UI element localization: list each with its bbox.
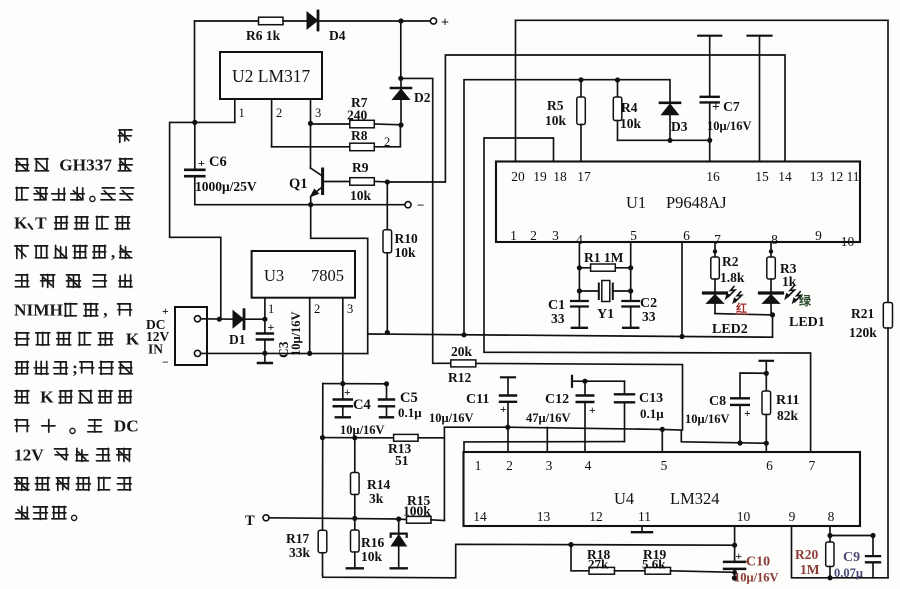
pin 11 of U4 label [638,509,651,524]
svg-text:3: 3 [546,458,553,473]
svg-text:U1: U1 [626,193,646,212]
svg-text:D1: D1 [229,332,246,347]
node [320,435,325,440]
svg-text:9: 9 [789,509,796,524]
svg-text:33: 33 [642,309,656,324]
svg-text:−: − [162,357,169,369]
wire [374,123,401,126]
svg-text:27k: 27k [588,557,609,572]
pin 6 wire of U1 [681,242,683,337]
wire [319,20,402,22]
wire [245,318,265,320]
pin 2 of U4 label [506,458,513,473]
capacitor C3 [257,319,275,353]
wire [830,535,873,537]
resistor R7 [347,95,374,128]
pin 7 of U1 label [714,232,721,247]
pin 6 of U4 label [766,458,773,473]
svg-text:3: 3 [315,106,321,120]
node [352,435,357,440]
wire [671,571,735,573]
wire top output rail [195,20,259,22]
pin 11 of U1 label [847,169,860,184]
node [505,425,510,430]
svg-text:2: 2 [530,228,537,243]
diode D1 [229,310,246,347]
svg-text:T: T [35,214,47,233]
svg-text:6: 6 [766,458,773,473]
wire pin10 of U4 [734,526,736,545]
note text (Chinese paragraph) [14,130,140,521]
capacitor C13 [615,381,664,441]
node [340,381,345,386]
svg-text:R11: R11 [776,393,799,408]
wire [515,20,517,161]
svg-text:13: 13 [537,509,551,524]
svg-text:10k: 10k [545,113,567,128]
svg-text:16: 16 [706,169,720,184]
svg-text:GH337: GH337 [59,156,112,175]
LED LED2 [704,279,773,337]
svg-text:17: 17 [577,169,591,184]
wire [401,20,430,22]
svg-text:K: K [126,330,140,349]
node [732,543,737,548]
svg-text:240: 240 [347,108,368,123]
pin 5 of U4 label [661,458,668,473]
svg-text:R21: R21 [851,306,874,321]
crystal Y1 [579,281,630,323]
chip U3 7805 [252,251,355,298]
svg-text:6: 6 [683,228,690,243]
svg-text:U4: U4 [614,489,634,508]
node [764,441,769,446]
svg-text:U3: U3 [264,266,284,285]
pin 17 of U1 label [577,169,591,184]
wire comparator rail [444,427,766,443]
svg-text:LM324: LM324 [670,489,720,508]
node [667,138,672,143]
svg-text:绿: 绿 [799,293,812,308]
svg-text:12: 12 [589,509,603,524]
wire R13 rail [323,437,394,439]
wire T rail [269,518,399,519]
svg-text:红: 红 [736,301,747,315]
resistor R14 [351,438,391,519]
wire [283,20,307,22]
pin 6 of U1 label [683,228,690,243]
resistor R10 [383,182,418,332]
svg-text:+: + [268,320,275,334]
svg-text:+: + [589,405,596,417]
svg-text:R10: R10 [395,231,418,246]
capacitor C7 [698,36,751,162]
svg-text:1: 1 [475,458,482,473]
wire [476,363,683,430]
node [262,351,267,356]
wire [194,21,196,122]
wire negative rail [195,204,405,206]
resistor R21 [849,303,893,341]
svg-text:10k: 10k [620,116,642,131]
pin 8 of U4 label [828,509,835,524]
svg-text:10k: 10k [350,188,372,203]
node [396,516,401,521]
svg-text:5: 5 [630,228,637,243]
svg-text:C8: C8 [709,394,726,409]
node [398,76,403,81]
capacitor C4 [334,384,385,437]
svg-text:R9: R9 [352,160,369,175]
svg-text:C13: C13 [639,391,663,406]
svg-text:10: 10 [841,234,855,249]
transistor Q1 [289,123,350,204]
svg-text:7805: 7805 [311,266,344,285]
node [262,317,267,322]
svg-text:D4: D4 [329,28,346,43]
node output+ [398,18,403,23]
pin 10 of U4 label [737,509,751,524]
svg-text:12: 12 [830,169,844,184]
wire [201,318,233,320]
resistor R20 [795,526,834,580]
pin 5 net of U1 [630,242,632,301]
svg-text:C5: C5 [400,390,418,406]
svg-text:;: ; [72,359,78,378]
svg-text:+: + [198,156,205,170]
svg-text:10: 10 [737,509,751,524]
svg-text:100k: 100k [403,504,431,519]
svg-text:R17: R17 [286,531,309,546]
pin 19 of U1 label [533,169,547,184]
svg-text:1: 1 [239,106,245,120]
pin 5 of U1 label [630,228,637,243]
svg-text:1k: 1k [782,274,797,289]
svg-text:2: 2 [314,302,320,316]
svg-text:U2 LM317: U2 LM317 [232,66,311,86]
ground C3 [258,353,272,363]
resistor R3 [767,242,797,289]
svg-text:5.6k: 5.6k [642,557,666,572]
chip U4 LM324 [464,452,861,526]
svg-text:R2: R2 [722,254,739,269]
svg-text:+: + [736,551,743,563]
pin 9 of U4 label [789,509,796,524]
node [568,542,573,547]
pin 2 of U3 [310,298,321,354]
pin 1 of U2 [235,99,245,122]
pin 16 of U1 label [706,169,720,184]
wire 5V rail [323,383,387,385]
wire supply stub pin15 [748,36,772,162]
svg-text:12V: 12V [14,446,44,465]
svg-text:11: 11 [638,509,651,524]
wire [443,427,445,520]
label green [799,293,812,308]
svg-text:3: 3 [347,302,353,316]
resistor R6 [246,17,283,43]
capacitor C5 [379,384,422,420]
svg-text:1M: 1M [800,562,820,577]
svg-text:5: 5 [661,458,668,473]
svg-text:19: 19 [533,169,547,184]
wire pin18 route [484,138,811,452]
svg-text:8: 8 [771,232,778,247]
svg-text:LED1: LED1 [789,315,825,330]
node [578,77,583,82]
svg-text:2: 2 [276,106,282,120]
svg-text:,: , [103,301,107,320]
svg-text:4: 4 [585,458,592,473]
capacitor C8 [685,373,766,443]
wire pin3 drop [546,427,548,452]
svg-text:9: 9 [815,228,822,243]
node [679,334,684,339]
wire [618,139,710,141]
svg-text:3k: 3k [369,491,384,506]
svg-text:0.1μ: 0.1μ [640,406,664,421]
svg-text:3: 3 [552,228,559,243]
svg-text:D2: D2 [414,90,431,105]
svg-text:R16: R16 [361,535,384,550]
pin 3 of U2 [311,99,322,123]
node [870,533,875,538]
resistor R1 [579,250,630,271]
svg-text:C12: C12 [545,392,569,407]
svg-text:10μ/16V: 10μ/16V [707,119,752,133]
node [628,288,633,293]
resistor R4 [613,80,641,140]
svg-text:10μ/16V: 10μ/16V [289,311,303,356]
pin 10 of U1 label [841,234,855,249]
svg-text:Q1: Q1 [289,176,308,192]
svg-text:P9648AJ: P9648AJ [666,193,727,212]
pin 3 of U1 label [552,228,559,243]
svg-text:+: + [441,16,449,31]
pin 13 of U1 label [810,169,824,184]
pin 18 of U1 label [553,169,567,184]
node [628,265,633,270]
node R10 bottom [385,330,390,335]
svg-text:R12: R12 [448,370,471,385]
label C3 rotated [276,311,303,358]
resistor R12 [448,344,476,385]
resistor R9 [350,160,375,203]
wire [311,123,350,125]
svg-text:1000μ/25V: 1000μ/25V [195,179,257,194]
svg-text:10μ/16V: 10μ/16V [340,423,385,437]
svg-text:14: 14 [473,509,487,524]
svg-text:C6: C6 [209,154,227,170]
connector DC 12V IN [146,306,207,369]
diode D4 [307,11,346,43]
resistor R2 [711,242,745,285]
svg-text:33k: 33k [289,545,311,560]
svg-text:0.1μ: 0.1μ [398,405,422,420]
pin 12 of U1 label [830,169,844,184]
svg-text:47μ/16V: 47μ/16V [526,411,571,425]
label red [736,301,748,315]
resistor R13 [388,434,418,468]
node D2 anode [398,122,403,127]
node [577,288,582,293]
wire [418,437,444,439]
svg-text:+: + [344,387,351,399]
chip U2 LM317 [220,52,322,99]
capacitor C9 [834,536,880,581]
svg-text:K: K [14,214,28,233]
node [307,351,312,356]
pin 1 of U1 label [510,228,517,243]
resistor R5 [545,80,585,162]
terminal - output [405,198,425,213]
svg-text:C4: C4 [353,397,371,413]
wire pullup rail [464,80,670,335]
svg-text:+ C7: + C7 [712,99,740,114]
svg-text:82k: 82k [777,408,799,423]
capacitor C10 [724,545,778,584]
svg-text:+: + [500,404,507,416]
svg-text:R8: R8 [351,128,368,143]
wire pin5 drop [661,429,663,452]
svg-text:LED2: LED2 [712,322,748,337]
pin 3 of U4 label [546,458,553,473]
wire C13 bottom rail [464,442,625,452]
node [384,381,389,386]
svg-text:51: 51 [395,453,409,468]
svg-text:1: 1 [268,302,274,316]
resistor R17 [286,530,327,575]
svg-text:2: 2 [506,458,513,473]
svg-text:R4: R4 [621,100,638,115]
node Q1 emitter [308,202,313,207]
pin 4 of U4 label [585,458,592,473]
svg-text:20: 20 [511,169,525,184]
node DC+ [217,317,222,322]
diode D2 [391,78,431,125]
svg-text:R14: R14 [367,477,390,492]
pin 1 of U3 [265,298,274,320]
pin 15 of U1 label [755,169,769,184]
pin 14 of U1 label [778,169,792,184]
node [764,371,769,376]
svg-text:10μ/16V: 10μ/16V [685,412,730,426]
pin 13 of U4 label [537,509,551,524]
wire right border [887,328,889,578]
svg-text:R1 1M: R1 1M [584,250,624,265]
node [582,379,587,384]
svg-text:18: 18 [553,169,567,184]
svg-text:T: T [245,513,255,529]
capacitor C11 [429,377,516,452]
terminal + output [430,16,449,31]
capacitor C1 [548,298,588,328]
resistor R18 [571,545,615,575]
resistor R11 [760,361,800,452]
svg-text:13: 13 [810,169,824,184]
resistor R15 [399,493,445,523]
diode D3 [660,103,688,141]
pin 2 of U1 label [530,228,537,243]
node [461,332,466,337]
capacitor C2 [622,296,657,328]
svg-text:10k: 10k [395,245,417,260]
node [615,77,620,82]
node LED common [770,312,775,317]
resistor R19 [615,547,671,574]
wire R8 branch [272,146,350,148]
svg-text:0.07μ: 0.07μ [834,566,863,580]
svg-text:C9: C9 [843,550,860,565]
svg-text:14: 14 [778,169,792,184]
LED LED1 [760,279,825,330]
ground pin11 of U4 [632,526,652,532]
wire D2 to R12 [401,78,451,363]
svg-text:−: − [417,198,424,213]
svg-text:D3: D3 [671,119,688,134]
svg-text:IN: IN [148,342,163,357]
svg-text:NIMH: NIMH [14,301,64,320]
pin 12 of U4 label [589,509,603,524]
svg-text:120k: 120k [849,325,877,340]
node [660,427,665,432]
node U2 out [308,121,313,126]
resistor R8 [350,128,390,151]
chip U1 P9648AJ [496,162,860,243]
pin 8 of U1 label [771,232,778,247]
svg-text:8: 8 [828,509,835,524]
wire pin9 of U4 [792,526,889,578]
svg-text:Y1: Y1 [597,307,614,322]
wire [400,21,402,78]
capacitor C12 [526,376,625,452]
pin 7 of U4 label [809,458,816,473]
wire VDD mid rail [368,334,773,337]
svg-text:,: , [111,243,115,262]
wire top rail to U1 pin19 [516,20,889,303]
resistor R16 [347,518,385,568]
wire [772,315,774,337]
svg-text:15: 15 [755,169,769,184]
wire R9 node up-over to U1 pin14 [387,55,785,182]
terminal T [245,513,269,529]
svg-text:20k: 20k [451,344,473,359]
svg-text:10μ/16V: 10μ/16V [734,571,779,585]
wire [195,121,235,123]
svg-text:7: 7 [809,458,816,473]
capacitor C6 [185,122,257,204]
node U2 adj [192,120,197,125]
diode zener [391,519,407,568]
pin 14 of U4 label [473,509,487,524]
svg-text:10k: 10k [361,549,383,564]
pin 3 of U3 [343,298,353,384]
node R9 right [385,179,390,184]
wire [374,126,400,147]
svg-text:K: K [40,388,54,407]
wire negative input rail [201,352,368,354]
svg-text:11: 11 [847,169,860,184]
wire loop to DC input [170,122,221,319]
svg-text:+: + [744,408,751,420]
node [352,516,357,521]
svg-text:R6 1k: R6 1k [246,28,281,43]
pin 2 of U2 [272,99,283,147]
svg-text:DC: DC [114,417,139,436]
svg-text:1.8k: 1.8k [720,270,745,285]
pin 4 net of U1 [578,242,580,301]
svg-text:1: 1 [510,228,517,243]
